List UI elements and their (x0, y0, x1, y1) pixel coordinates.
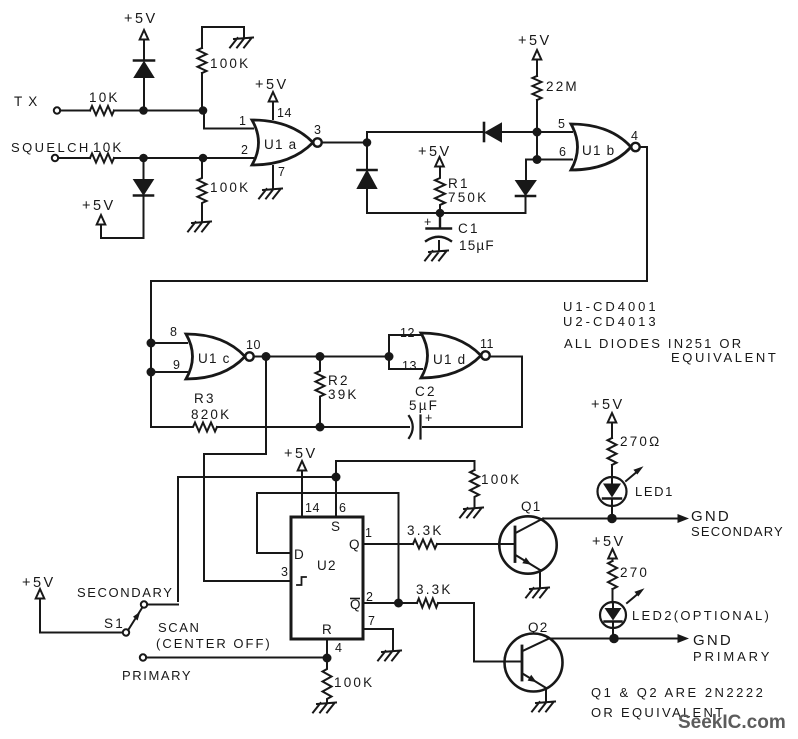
svg-text:R3: R3 (194, 391, 216, 406)
+5V symbol (LED2) (608, 549, 617, 559)
LED1 cathode bar (603, 497, 621, 499)
svg-text:+5V: +5V (124, 11, 158, 27)
junction dot LED2 node (609, 634, 619, 644)
wire +5V to diode D1 (143, 40, 145, 60)
wire U2 pin 1 Q to 3.3K (363, 543, 413, 545)
resistor 270 (LED2) (608, 561, 617, 589)
svg-text:9: 9 (173, 358, 180, 372)
LED1 triangle (603, 484, 621, 498)
resistor 3.3K (Q2 base) (417, 599, 438, 608)
transistor Q1 emitter (516, 555, 541, 570)
ground (top 100K) (230, 38, 253, 48)
node TX input terminal (54, 107, 60, 113)
capacitor C2 straight plate (419, 416, 421, 439)
LED1 luminous arrowhead (633, 466, 643, 474)
svg-text:C1: C1 (458, 221, 480, 236)
LED2 wire inside top (612, 603, 614, 609)
diode D3 triangle (points up) (358, 172, 376, 189)
ground (R pulldown) (313, 703, 336, 713)
junction dot S node (332, 473, 341, 482)
switch S1 blade (129, 608, 143, 630)
junction dot U1c pin 9 tap (147, 368, 156, 377)
junction dot U1c pin 8 tap (147, 339, 156, 348)
op-amp U1d NOR gate body (421, 333, 481, 378)
svg-text:LED2(OPTIONAL): LED2(OPTIONAL) (632, 608, 771, 623)
capacitor C1 top plate (427, 213, 452, 229)
svg-text:SCAN: SCAN (158, 620, 201, 635)
svg-text:+5V: +5V (255, 77, 289, 93)
junction dot SQUELCH/diode D2 (139, 154, 148, 163)
+5V symbol (switch S1) (36, 589, 45, 599)
svg-text:4: 4 (335, 641, 342, 655)
wire 270 to LED2 (612, 589, 614, 603)
wire 100K to TX line (201, 73, 203, 111)
svg-text:EQUIVALENT: EQUIVALENT (671, 350, 778, 365)
wire +5V to 22M (536, 60, 538, 77)
diode D4 triangle (points left) (486, 124, 501, 141)
resistor 10K (TX) (90, 106, 114, 115)
wire SECONDARY contact to riser (147, 604, 178, 606)
wire S-node rail to switch riser (178, 477, 336, 601)
svg-text:GND: GND (691, 508, 731, 525)
wire 10K to pin1 drop, through diode and 100K junctions (114, 110, 204, 112)
wire +5V to 270ohm (611, 423, 613, 439)
wire node A up and right to diode D4 (367, 132, 484, 143)
svg-text:270: 270 (620, 565, 649, 580)
wire TX terminal to 10K (60, 110, 90, 112)
wire 100K-1 top loop to ground (202, 27, 244, 48)
svg-text:10: 10 (246, 338, 261, 352)
svg-text:+5V: +5V (592, 534, 626, 550)
capacitor C2 curved plate (409, 416, 413, 438)
node SECONDARY contact (141, 601, 147, 607)
svg-text:100K: 100K (334, 675, 374, 690)
svg-text:3.3K: 3.3K (416, 582, 453, 597)
svg-text:3.3K: 3.3K (407, 523, 444, 538)
wire C2 to U1d output drop (423, 357, 522, 428)
junction dot R node (323, 654, 332, 663)
wire Q2 collector to GND PRIMARY arrow (549, 638, 680, 640)
transistor Q1 circle (499, 516, 556, 573)
wire bottom rail (R1/C1 node) (367, 212, 526, 214)
diode D1 cathode bar (134, 59, 154, 62)
wire C1 to ground (438, 241, 440, 251)
svg-text:+5V: +5V (518, 33, 552, 49)
svg-text:U1 a: U1 a (264, 137, 297, 152)
junction dot LED1 node (607, 514, 617, 524)
transistor Q2 circle (505, 634, 563, 692)
node PRIMARY terminal (140, 654, 146, 660)
svg-text:2: 2 (366, 590, 373, 604)
svg-text:SECONDARY: SECONDARY (691, 524, 784, 539)
svg-text:U1 d: U1 d (433, 352, 466, 367)
svg-text:SQUELCH: SQUELCH (11, 140, 91, 155)
wire 22M to pin5 junction (536, 100, 538, 132)
resistor R1 750K (435, 167, 445, 213)
svg-text:Q1: Q1 (521, 499, 541, 514)
transistor Q2 collector (523, 639, 550, 652)
+5V symbol (U1a pin 14) (269, 92, 278, 102)
wire 270 to LED1 (611, 465, 613, 478)
junction dot R1/C1 (436, 209, 445, 218)
wire U2 pin 7 to ground (363, 629, 393, 651)
op-amp U1c NOR gate body (186, 334, 245, 379)
wire pin5 junction down to pin6 junction (536, 132, 538, 160)
resistor 270 ohm (LED1) (608, 438, 617, 465)
svg-text:8: 8 (170, 325, 177, 339)
svg-text:Q2: Q2 (528, 620, 548, 635)
wire diode D5 to bottom rail (525, 196, 527, 213)
ground (U2 pin 7) (378, 651, 401, 661)
wire LED2 to collector node (612, 622, 614, 639)
junction dot node A (363, 138, 372, 147)
junction dot U1c output (262, 352, 271, 361)
+5V symbol (TX diode) (140, 30, 149, 40)
svg-text:12: 12 (400, 326, 415, 340)
wire diode D2 to +5V elbow (101, 196, 144, 239)
svg-text:Q1 & Q2 ARE 2N2222: Q1 & Q2 ARE 2N2222 (591, 685, 765, 700)
wire to U1c pin 9 (151, 371, 187, 373)
+5V symbol (R1) (435, 157, 444, 167)
svg-text:U1 b: U1 b (582, 143, 615, 158)
wire +5V to U1a pin 14 (272, 102, 274, 120)
ground (Q1 emitter) (526, 588, 549, 598)
wire U1a pin 3 to node A (322, 142, 367, 144)
svg-text:270Ω: 270Ω (620, 434, 661, 449)
svg-text:15µF: 15µF (459, 238, 495, 253)
svg-text:S1: S1 (104, 616, 125, 631)
+5V symbol (22M) (533, 50, 542, 60)
wire +5V to U2 pin 14 (301, 471, 303, 517)
svg-text:SeekIC.com: SeekIC.com (678, 712, 786, 733)
LED1 wire inside top (611, 478, 613, 484)
junction dot TX/diode D1 (139, 106, 148, 115)
wire U1c pin 10 to U1d input fork (254, 356, 389, 358)
capacitor C1 curved plate (426, 237, 451, 241)
svg-text:14: 14 (277, 106, 292, 120)
svg-text:+: + (425, 411, 433, 425)
svg-text:10K: 10K (89, 90, 120, 105)
diode D5 cathode bar (516, 195, 535, 198)
svg-text:1: 1 (239, 114, 246, 128)
node switch common terminal (123, 629, 129, 635)
transistor Q2 base bar (521, 646, 524, 680)
ground (U1a pin 7) (259, 189, 282, 199)
wire D loop (Qbar to D) (257, 493, 399, 603)
svg-text:100K: 100K (481, 472, 521, 487)
diode D5 triangle (points down) (517, 181, 536, 195)
svg-text:(CENTER OFF): (CENTER OFF) (156, 636, 272, 651)
wire 3.3K to Q2 base (438, 603, 522, 662)
junction dot pin 6 node (533, 155, 542, 164)
ground (C1) (425, 251, 448, 261)
diode D2 cathode bar (134, 194, 153, 197)
svg-text:13: 13 (402, 359, 417, 373)
LED1 luminous arrow (626, 471, 638, 481)
junction dot R2 top (316, 352, 325, 361)
op-amp U1a NOR gate body (252, 120, 313, 165)
wire diode D4 to 22M junction (501, 131, 537, 133)
svg-text:10K: 10K (93, 140, 124, 155)
svg-text:D: D (294, 547, 305, 562)
wire S node down to U2 pin 6 (335, 477, 337, 516)
wire PRIMARY terminal to R node (146, 657, 327, 659)
wire U2 pin 4 R (326, 639, 328, 658)
transistor Q1 base bar (514, 527, 517, 562)
wire Q1 emitter to ground (539, 570, 541, 588)
svg-text:+: + (424, 215, 432, 229)
arrowhead GND PRIMARY (678, 634, 690, 643)
svg-text:R1: R1 (448, 176, 470, 191)
svg-text:100K: 100K (210, 180, 250, 195)
Qbar overbar (350, 598, 360, 600)
svg-text:TX: TX (14, 94, 43, 109)
svg-text:R: R (322, 622, 333, 637)
clock edge symbol inside U2 (297, 577, 306, 585)
svg-text:Q: Q (349, 537, 361, 552)
svg-text:R2: R2 (328, 373, 350, 388)
transistor Q1 collector (516, 519, 544, 534)
svg-text:39K: 39K (328, 387, 359, 402)
svg-text:+5V: +5V (284, 446, 318, 462)
wire U1d input fork pin 12 (389, 335, 422, 357)
ground (S pulldown) (460, 508, 483, 518)
svg-text:4: 4 (631, 129, 638, 143)
wire SQUELCH terminal to 10K (58, 157, 90, 159)
transistor Q2 emitter (523, 674, 547, 689)
arrowhead GND SECONDARY (678, 514, 690, 523)
junction dot SQUELCH/100K (199, 154, 208, 163)
junction dot U1d input fork (385, 352, 394, 361)
wire S node up to 100K pulldown (336, 461, 475, 477)
svg-text:14: 14 (305, 501, 320, 515)
svg-text:SECONDARY: SECONDARY (77, 585, 174, 600)
wire node A down to diode D3 (366, 143, 368, 170)
IC U2 box (291, 517, 363, 639)
svg-text:S: S (331, 519, 341, 534)
resistor R2 39K (316, 357, 325, 428)
wire +5V to switch common (40, 599, 123, 633)
svg-text:3: 3 (281, 565, 288, 579)
svg-text:750K: 750K (448, 190, 488, 205)
wire R3 to capacitor C2 (217, 426, 409, 428)
wire U2 pin 2 Qbar to 3.3K (363, 602, 417, 604)
diode D4 cathode bar (483, 123, 486, 141)
switch S1 blade arrowhead (133, 612, 140, 621)
svg-text:1: 1 (365, 526, 372, 540)
U1c output bubble pin 10 (245, 352, 253, 360)
svg-text:PRIMARY: PRIMARY (122, 668, 192, 683)
wire Q1 collector to GND SECONDARY arrow (543, 518, 680, 520)
svg-text:+5V: +5V (82, 198, 116, 214)
svg-text:PRIMARY: PRIMARY (693, 649, 772, 664)
junction dot Qbar/D loop (394, 599, 403, 608)
wire U1c output down to U2 clock (204, 357, 292, 582)
ground (Q2 emitter) (532, 702, 555, 712)
svg-text:U1 c: U1 c (198, 351, 231, 366)
resistor 3.3K (Q1 base) (413, 540, 437, 549)
svg-text:6: 6 (339, 501, 346, 515)
svg-text:820K: 820K (191, 407, 231, 422)
U1d output bubble pin 11 (481, 351, 489, 359)
svg-text:100K: 100K (210, 56, 250, 71)
wire Q2 emitter to ground (545, 688, 547, 702)
LED1 circle (598, 477, 627, 506)
svg-text:C2: C2 (415, 384, 437, 399)
svg-text:3: 3 (314, 123, 321, 137)
LED2 cathode bar (605, 620, 622, 622)
wire U1d input fork pin 13 (389, 357, 422, 370)
resistor 100K (S pulldown) (470, 470, 479, 508)
junction dot pin 5 node (533, 128, 542, 137)
transistor Q2 emitter arrowhead (528, 675, 537, 682)
svg-text:7: 7 (278, 165, 285, 179)
+5V symbol (SQUELCH diode) (97, 215, 106, 225)
LED2 luminous arrow (627, 593, 639, 603)
svg-text:2: 2 (241, 143, 248, 157)
op-amp U1b NOR gate body (571, 124, 631, 170)
resistor 22M (533, 76, 542, 100)
wire diode D3 down to bottom rail (366, 188, 368, 213)
LED2 circle (600, 602, 626, 628)
LED2 luminous arrowhead (634, 588, 644, 596)
svg-text:+5V: +5V (22, 575, 56, 591)
svg-text:U1-CD4001: U1-CD4001 (563, 299, 659, 314)
+5V symbol (LED1) (608, 413, 617, 423)
resistor 100K (R pulldown) (323, 658, 332, 703)
svg-text:22M: 22M (546, 79, 579, 94)
svg-text:5: 5 (558, 117, 565, 131)
ground (100K below SQUELCH) (188, 222, 211, 232)
svg-text:GND: GND (693, 632, 733, 649)
U1a output bubble pin 3 (313, 138, 321, 146)
LED2 triangle (605, 608, 622, 621)
svg-text:LED1: LED1 (635, 484, 674, 499)
svg-text:+5V: +5V (591, 397, 625, 413)
wire U1b pin 4 down to feedback rail (151, 147, 647, 427)
wire LED1 to collector node (611, 499, 613, 519)
diode D3 cathode bar (358, 169, 377, 172)
wire 3.3K to Q1 base (437, 543, 515, 545)
transistor Q1 emitter arrowhead (522, 557, 531, 564)
svg-text:U2: U2 (317, 558, 337, 573)
wire SQUELCH line down to diode D2 (143, 158, 145, 180)
wire junction to U1b pin 6 (537, 159, 572, 161)
junction dot TX/100K (199, 106, 208, 115)
svg-text:ALL DIODES IN251 OR: ALL DIODES IN251 OR (564, 336, 743, 351)
resistor 100K (below SQUELCH) (198, 158, 207, 222)
svg-text:U2-CD4013: U2-CD4013 (563, 314, 659, 329)
svg-text:6: 6 (559, 145, 566, 159)
wire to U1c pin 8 (151, 342, 187, 344)
resistor 10K (SQUELCH) (90, 154, 114, 163)
junction dot R2 bottom (316, 423, 325, 432)
svg-text:7: 7 (368, 614, 375, 628)
wire pin6 junction to diode D5 (526, 160, 537, 182)
wire junction to U1b pin 5 (537, 131, 572, 133)
diode D1 triangle (135, 63, 153, 78)
resistor R3 820K (151, 423, 217, 432)
svg-text:11: 11 (480, 337, 494, 351)
diode D2 triangle (135, 180, 153, 194)
node SQUELCH input terminal (52, 155, 58, 161)
wire diode D1 to TX line (143, 77, 145, 111)
resistor 100K (top) (198, 48, 207, 73)
svg-text:+5V: +5V (418, 144, 452, 160)
U1b output bubble pin 4 (631, 143, 639, 151)
wire junction down to U1a pin 1 (204, 111, 253, 129)
wire 10K to U1a pin 2 (114, 157, 253, 159)
wire +5V to 270 (612, 559, 614, 562)
+5V symbol (U2 pin 14) (298, 461, 307, 471)
wire U1a pin 7 to ground (272, 166, 274, 189)
